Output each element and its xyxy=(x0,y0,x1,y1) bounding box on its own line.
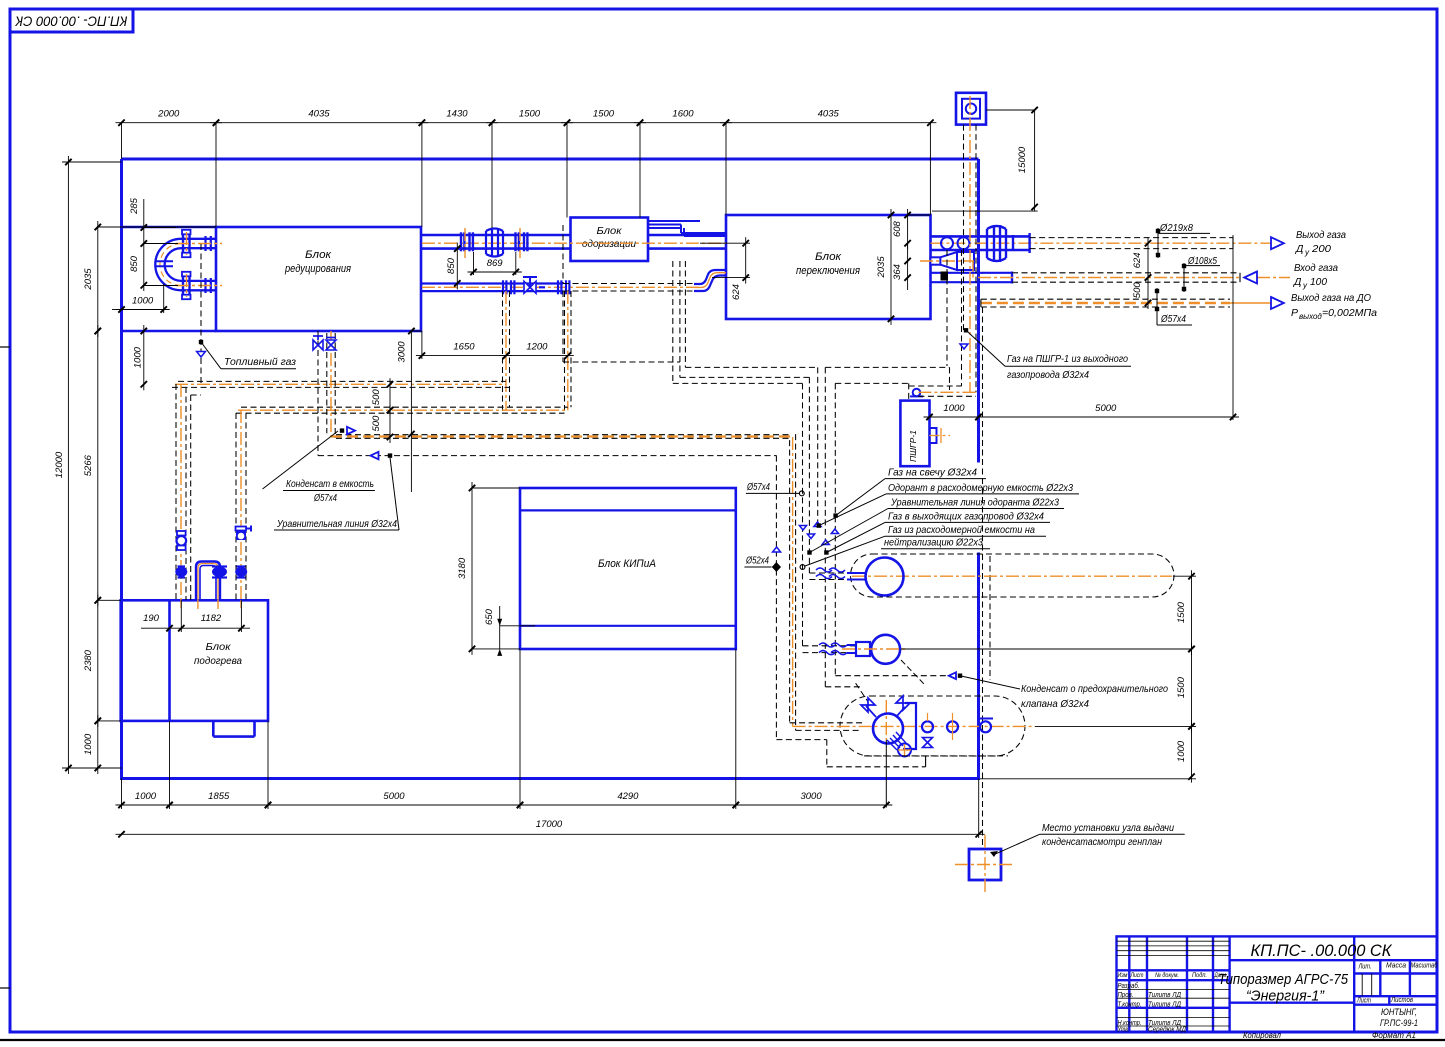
svg-text:Лист: Лист xyxy=(1130,973,1144,979)
svg-text:17000: 17000 xyxy=(536,819,563,830)
svg-text:Выход газа: Выход газа xyxy=(1296,229,1346,241)
svg-text:1500: 1500 xyxy=(1176,676,1187,698)
svg-text:нейтрализацию Ø22х3: нейтрализацию Ø22х3 xyxy=(884,537,983,549)
svg-text:190: 190 xyxy=(143,613,160,624)
svg-text:1855: 1855 xyxy=(208,791,230,802)
svg-text:4035: 4035 xyxy=(308,109,330,120)
svg-text:“Энергия-1”: “Энергия-1” xyxy=(1246,989,1325,1005)
svg-text:624: 624 xyxy=(731,284,742,300)
svg-text:Копировал: Копировал xyxy=(1243,1031,1281,1040)
svg-text:Блок: Блок xyxy=(815,251,842,263)
svg-text:364: 364 xyxy=(892,264,903,280)
svg-text:2035: 2035 xyxy=(876,256,887,279)
svg-text:Блок КИПиА: Блок КИПиА xyxy=(598,558,656,570)
svg-text:Дата: Дата xyxy=(1214,972,1227,979)
svg-text:КП.ПС- .00.000 СК: КП.ПС- .00.000 СК xyxy=(14,14,127,29)
svg-text:Конденсат о предохранительного: Конденсат о предохранительного xyxy=(1021,683,1168,695)
svg-text:Тилитв ЛД: Тилитв ЛД xyxy=(1148,1002,1181,1009)
svg-text:5000: 5000 xyxy=(1095,403,1117,414)
svg-text:1182: 1182 xyxy=(201,613,222,624)
svg-text:Д: Д xyxy=(1293,276,1302,288)
svg-text:624: 624 xyxy=(1132,252,1143,268)
svg-text:одоризации: одоризации xyxy=(582,238,636,250)
svg-text:Масштаб: Масштаб xyxy=(1411,961,1439,970)
svg-text:1430: 1430 xyxy=(446,109,468,120)
svg-text:Ø108х5: Ø108х5 xyxy=(1187,256,1217,267)
svg-text:Газ на ПШГР-1 из выходного: Газ на ПШГР-1 из выходного xyxy=(1007,353,1128,365)
svg-text:выход: выход xyxy=(1299,312,1322,321)
svg-text:подогрева: подогрева xyxy=(194,655,242,667)
svg-text:5266: 5266 xyxy=(83,454,94,476)
svg-text:2000: 2000 xyxy=(157,109,180,120)
svg-text:Р: Р xyxy=(1291,307,1298,319)
svg-text:ГР.ПС-99-1: ГР.ПС-99-1 xyxy=(1380,1018,1418,1028)
svg-text:№ докум.: № докум. xyxy=(1155,971,1179,979)
svg-text:500: 500 xyxy=(1132,282,1143,299)
svg-text:Изм: Изм xyxy=(1118,973,1128,979)
svg-text:Уравнительная линия одоранта Ø: Уравнительная линия одоранта Ø22х3 xyxy=(890,496,1059,508)
svg-text:1200: 1200 xyxy=(526,342,548,353)
svg-text:Пров.: Пров. xyxy=(1118,992,1134,999)
svg-text:200: 200 xyxy=(1311,243,1331,255)
svg-text:1500: 1500 xyxy=(1176,601,1187,623)
svg-text:Масса: Масса xyxy=(1386,961,1406,970)
svg-text:Блок: Блок xyxy=(305,249,332,261)
svg-text:Уравнительная линия Ø32х4: Уравнительная линия Ø32х4 xyxy=(276,518,397,530)
svg-text:1000: 1000 xyxy=(132,346,143,368)
svg-text:Д: Д xyxy=(1295,243,1304,255)
svg-text:Ø57х4: Ø57х4 xyxy=(313,492,337,504)
svg-text:редуцирования: редуцирования xyxy=(284,263,351,275)
svg-text:1500: 1500 xyxy=(519,109,541,120)
svg-text:3000: 3000 xyxy=(396,341,407,363)
svg-text:Разраб.: Разраб. xyxy=(1118,982,1140,990)
svg-text:Конденсат в емкость: Конденсат в емкость xyxy=(286,478,374,490)
svg-text:КП.ПС- .00.000 СК: КП.ПС- .00.000 СК xyxy=(1251,942,1393,960)
svg-text:1600: 1600 xyxy=(672,109,694,120)
svg-text:ПШГР-1: ПШГР-1 xyxy=(908,430,918,462)
svg-text:Выход газа на ДО: Выход газа на ДО xyxy=(1291,292,1371,304)
svg-text:650: 650 xyxy=(484,608,495,625)
svg-text:Типоразмер АГРС-75: Типоразмер АГРС-75 xyxy=(1218,971,1349,988)
svg-text:1000: 1000 xyxy=(943,403,965,414)
svg-text:850: 850 xyxy=(446,257,457,274)
svg-text:3000: 3000 xyxy=(800,791,822,802)
svg-text:переключения: переключения xyxy=(796,265,860,277)
svg-text:газопровода Ø32х4: газопровода Ø32х4 xyxy=(1007,369,1089,381)
svg-text:конденсатасмотри генплан: конденсатасмотри генплан xyxy=(1042,836,1162,848)
svg-text:Газ в выходящих газопровод Ø3: Газ в выходящих газопровод Ø32х4 xyxy=(888,510,1044,522)
svg-text:1650: 1650 xyxy=(453,342,475,353)
svg-text:Ø219х8: Ø219х8 xyxy=(1159,223,1193,234)
svg-text:2035: 2035 xyxy=(83,268,94,291)
svg-text:500: 500 xyxy=(371,389,382,406)
svg-text:клапана Ø32х4: клапана Ø32х4 xyxy=(1021,698,1089,710)
svg-text:Вход газа: Вход газа xyxy=(1294,262,1338,274)
svg-text:=0,002МПа: =0,002МПа xyxy=(1322,307,1377,319)
svg-text:869: 869 xyxy=(487,258,504,269)
svg-text:100: 100 xyxy=(1310,276,1327,288)
svg-text:Утв.: Утв. xyxy=(1117,1027,1130,1034)
svg-text:Блок: Блок xyxy=(597,225,623,237)
svg-text:4035: 4035 xyxy=(818,109,840,120)
svg-text:1000: 1000 xyxy=(83,733,94,755)
svg-text:Подп.: Подп. xyxy=(1192,971,1207,979)
svg-text:1000: 1000 xyxy=(135,791,157,802)
svg-text:5000: 5000 xyxy=(383,791,405,802)
svg-text:12000: 12000 xyxy=(54,451,65,478)
svg-text:285: 285 xyxy=(129,197,140,215)
svg-text:Газ на свечу Ø32х4: Газ на свечу Ø32х4 xyxy=(888,467,977,479)
svg-text:Лист: Лист xyxy=(1356,996,1371,1005)
svg-text:Ø57х4: Ø57х4 xyxy=(746,482,770,493)
svg-text:Газ из расходомерной емкости н: Газ из расходомерной емкости на xyxy=(888,524,1035,536)
svg-text:500: 500 xyxy=(371,415,382,432)
svg-text:3180: 3180 xyxy=(457,557,468,579)
svg-text:4290: 4290 xyxy=(617,791,639,802)
svg-text:Листов: Листов xyxy=(1390,995,1413,1004)
svg-text:1000: 1000 xyxy=(1176,740,1187,762)
svg-text:15000: 15000 xyxy=(1017,146,1028,173)
svg-text:850: 850 xyxy=(129,255,140,272)
svg-text:Место установки узла выдачи: Место установки узла выдачи xyxy=(1042,822,1174,834)
svg-text:Формат А1: Формат А1 xyxy=(1372,1031,1416,1040)
svg-text:Середюк МД: Середюк МД xyxy=(1148,1026,1186,1034)
svg-text:Лит.: Лит. xyxy=(1358,962,1372,971)
svg-text:608: 608 xyxy=(892,220,903,237)
svg-text:1500: 1500 xyxy=(593,109,615,120)
svg-text:Ø52х4: Ø52х4 xyxy=(745,556,769,567)
svg-text:2380: 2380 xyxy=(83,649,94,672)
svg-text:Одорант в расходомерную емкост: Одорант в расходомерную емкость Ø22х3 xyxy=(888,482,1073,494)
svg-text:Топливный газ: Топливный газ xyxy=(224,356,296,368)
svg-text:Блок: Блок xyxy=(206,641,232,653)
svg-text:ЮНТЫНГ,: ЮНТЫНГ, xyxy=(1381,1007,1417,1017)
svg-text:Т.контр.: Т.контр. xyxy=(1118,1002,1142,1009)
svg-text:1000: 1000 xyxy=(132,296,154,307)
svg-text:Ø57х4: Ø57х4 xyxy=(1160,314,1186,325)
svg-text:Тилитв ЛД: Тилитв ЛД xyxy=(1148,992,1181,999)
